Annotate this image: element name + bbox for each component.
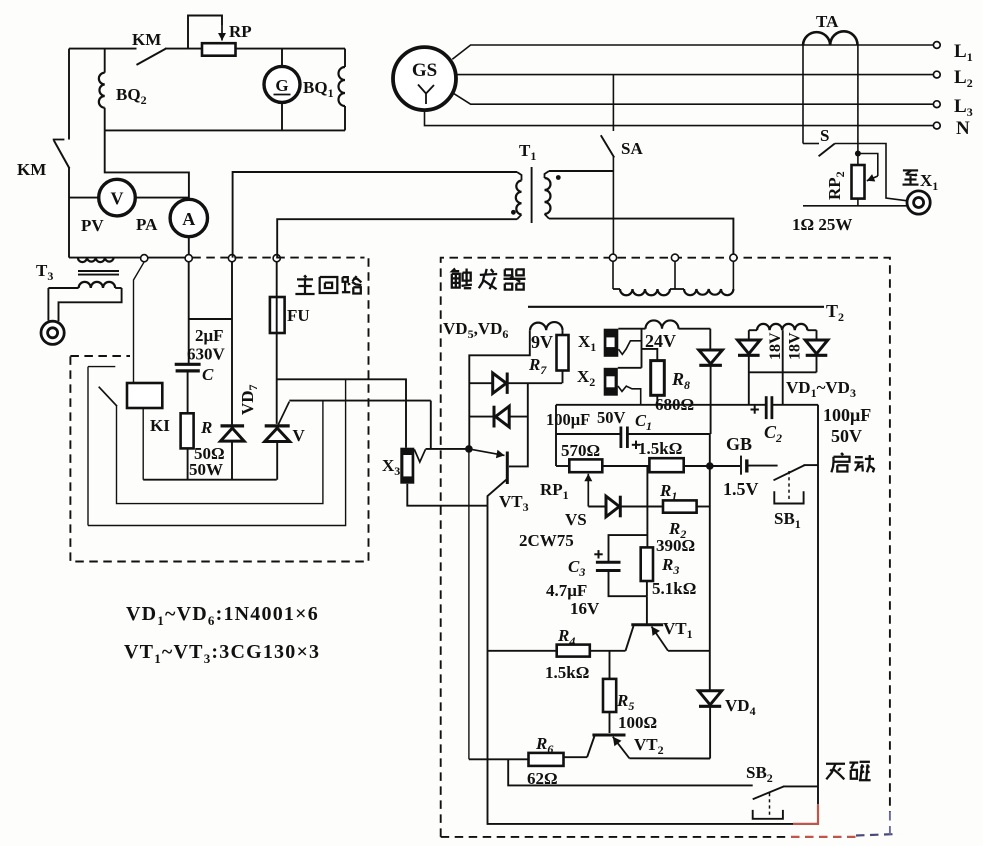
inductor BQ2 <box>104 49 106 73</box>
wire RP to BQ1 branch <box>236 48 346 50</box>
svg-text:18V: 18V <box>767 332 784 360</box>
wire VD node to VT3 base <box>509 383 528 466</box>
wire X1 group vertical <box>641 329 643 368</box>
watermark blue dashes <box>856 834 898 836</box>
pushbutton SB2 <box>753 786 784 799</box>
wire C1 right to node <box>709 434 711 466</box>
wire top excitation bus <box>69 48 137 50</box>
transistor VT2 <box>592 734 625 737</box>
transistor VT3 <box>506 452 509 485</box>
contactor KM (top contact) <box>137 48 167 65</box>
transformer T3 secondary <box>79 282 116 288</box>
wire to voltmeter <box>69 197 99 199</box>
diode VD7 <box>231 262 233 425</box>
transformer T3 primary <box>78 258 114 263</box>
node on bus (VD7 branch) <box>228 255 235 262</box>
svg-text:570Ω: 570Ω <box>561 441 600 460</box>
svg-text:100Ω: 100Ω <box>618 713 657 732</box>
diode VD3 <box>816 330 818 340</box>
resistor R3 5.1k <box>641 547 653 581</box>
svg-text:5.1kΩ: 5.1kΩ <box>652 579 696 598</box>
resistor R7 <box>557 335 569 371</box>
node R1 right <box>706 462 714 470</box>
svg-text:18V: 18V <box>787 332 804 360</box>
node T2 primary right <box>730 254 737 261</box>
connector X1 <box>604 329 619 357</box>
wire C branch from bus <box>188 262 190 363</box>
wire bridge C to VD7 branch <box>189 318 232 320</box>
wire X1 to 24V winding <box>618 328 645 330</box>
wire T1 primary bottom <box>277 219 517 257</box>
terminal L2 <box>933 71 940 78</box>
wire TA right leg <box>857 45 859 154</box>
svg-text:9V: 9V <box>531 332 553 352</box>
potentiometer RP1 570ohm <box>556 465 569 467</box>
wire X2 top <box>618 367 642 369</box>
transistor VT1 <box>646 596 648 623</box>
node junction emitter <box>465 445 473 453</box>
connector X3 <box>400 448 414 484</box>
label qi-dong (start) <box>841 453 843 455</box>
connector X2 <box>604 368 618 396</box>
generator GS <box>393 47 456 110</box>
wire gate drop to emitter node <box>430 401 432 449</box>
transformer T2 24V winding <box>646 320 679 328</box>
resistor R5 100ohm <box>609 651 611 679</box>
wire T1 secondary bottom <box>549 219 733 255</box>
wire X3 bottom to VT3 collector <box>407 484 487 506</box>
transformer T2 18V windings <box>749 329 757 331</box>
relay coil KI <box>127 383 162 408</box>
wire RP2 bottom <box>803 205 907 207</box>
relay contact KI <box>88 366 115 368</box>
thyristor V <box>265 424 290 427</box>
wire emitter node <box>426 448 469 450</box>
wire RP1 wiper to VS <box>588 506 606 508</box>
node RP2 top <box>855 151 861 157</box>
rheostat RP2 <box>857 154 859 166</box>
svg-text:50W: 50W <box>189 460 223 479</box>
svg-text:1Ω 25W: 1Ω 25W <box>792 215 852 234</box>
wire rectifier cathodes join <box>749 371 817 373</box>
svg-text:2CW75: 2CW75 <box>519 531 574 550</box>
diode VD4 <box>699 691 722 705</box>
svg-text:V: V <box>293 426 306 445</box>
wire ammeter to bus <box>188 237 190 255</box>
diode VD5 <box>469 382 492 384</box>
current transformer TA <box>803 31 858 45</box>
wire voltmeter to ammeter node <box>135 197 189 199</box>
transformer T2 primary windings <box>612 261 614 289</box>
diode VD6 <box>469 416 494 418</box>
wire KI contact to gate loop <box>117 401 323 504</box>
node T2 primary mid <box>671 254 678 261</box>
svg-text:2μF: 2μF <box>195 326 224 345</box>
svg-text:100μF: 100μF <box>546 410 590 429</box>
transformer T2 core <box>528 306 824 308</box>
transformer T1 primary <box>517 172 522 181</box>
wire KI coil to cathode rail <box>142 408 144 480</box>
wire BQ2 to ammeter <box>105 130 189 199</box>
wire VT3 collector rail <box>488 506 794 824</box>
transformer T2 9V winding <box>530 322 563 330</box>
wire anode tap loop <box>88 379 346 525</box>
svg-text:R: R <box>200 418 212 437</box>
wire bus node to relay KI coil <box>134 262 145 383</box>
svg-text:1.5kΩ: 1.5kΩ <box>638 439 682 458</box>
svg-text:FU: FU <box>287 306 310 325</box>
svg-text:C: C <box>202 365 214 384</box>
wire thyristor gate line <box>289 400 431 402</box>
label zhu-hui-lu (main circuit) <box>304 275 306 277</box>
terminal to X1 (zhi X1) <box>907 191 930 214</box>
terminal L3 <box>933 101 940 108</box>
capacitor C3 4.7uF 16V <box>609 535 648 561</box>
diode VD1 <box>709 329 711 350</box>
svg-text:SA: SA <box>621 139 643 158</box>
svg-text:VS: VS <box>565 510 587 529</box>
svg-text:GS: GS <box>412 60 437 81</box>
node on bus (KI tap) <box>141 255 148 262</box>
wire main bus (solid part) <box>69 257 189 259</box>
pushbutton SB1 <box>774 465 805 480</box>
fuse FU <box>276 262 278 297</box>
svg-text:PA: PA <box>136 215 158 234</box>
resistor R6 62ohm <box>564 756 588 758</box>
voltmeter PV <box>99 179 136 216</box>
label chu-fa-qi (trigger) <box>452 269 459 272</box>
wire line L3 <box>453 93 936 104</box>
svg-text:390Ω: 390Ω <box>656 536 695 555</box>
svg-text:100μF: 100μF <box>823 405 871 425</box>
wire 18V centre tap <box>782 330 784 405</box>
svg-text:1.5kΩ: 1.5kΩ <box>545 663 589 682</box>
node on bus (FU branch) <box>273 255 280 262</box>
watermark red corner <box>793 804 818 824</box>
wire DC rail drop left <box>555 405 557 466</box>
rheostat RP <box>202 43 236 56</box>
svg-text:TA: TA <box>816 12 839 31</box>
wire T1 primary top <box>233 172 517 258</box>
svg-text:KM: KM <box>17 160 46 179</box>
svg-text:VT1​~VT3​:3CG130×3: VT1​~VT3​:3CG130×3 <box>124 641 320 666</box>
zener VS 2CW75 <box>606 496 619 517</box>
svg-text:PV: PV <box>81 216 104 235</box>
dashed box main circuit (zhu-hui-lu) <box>70 258 368 561</box>
capacitor C1 <box>556 433 621 435</box>
wire emitter node to R6 rail <box>468 449 470 759</box>
svg-text:16V: 16V <box>570 599 600 618</box>
svg-text:1.5V: 1.5V <box>723 479 759 499</box>
diode VD2 <box>748 330 750 340</box>
resistor R1 1.5k <box>649 458 683 472</box>
resistor R 50ohm 50W <box>181 413 194 448</box>
svg-text:4.7μF: 4.7μF <box>546 581 587 600</box>
terminal socket of T3 <box>41 321 64 344</box>
label mie-ci (de-excitation) <box>826 763 845 765</box>
svg-text:VD1​~VD6​:1N4001×6: VD1​~VD6​:1N4001×6 <box>126 603 319 628</box>
svg-text:A: A <box>182 209 195 229</box>
inductor BQ1 <box>344 49 346 67</box>
svg-text:N: N <box>956 118 970 139</box>
dashed box trigger (chu-fa-qi) <box>441 258 890 837</box>
wire cathode rail of main circuit <box>143 479 277 481</box>
wire VT2 emitter <box>629 757 710 759</box>
svg-text:RP: RP <box>229 22 252 41</box>
svg-text:VD5​,VD6​: VD5​,VD6​ <box>443 319 508 341</box>
meter G (exciter) <box>281 49 283 67</box>
wire to R8 top <box>642 349 658 361</box>
svg-text:VD1​~VD3​: VD1​~VD3​ <box>786 378 856 400</box>
wire top after KM <box>165 48 202 50</box>
node T2 primary left <box>609 254 616 261</box>
svg-text:V: V <box>111 189 124 209</box>
wire S to terminal <box>835 144 908 201</box>
wire R6 to SB2 row <box>508 759 753 785</box>
wire T1 secondary top to SA <box>549 170 613 172</box>
label zhi-X1 <box>903 169 918 171</box>
terminal L1 <box>933 42 940 49</box>
svg-text:KI: KI <box>150 416 170 435</box>
svg-text:S: S <box>820 126 829 145</box>
wire right rail to SB1 <box>817 405 819 805</box>
node on bus (C branch) <box>185 255 192 262</box>
terminal N <box>933 122 940 129</box>
svg-text:GB: GB <box>726 434 752 454</box>
resistor R4 1.5k <box>488 650 557 652</box>
resistor R2 390ohm <box>663 500 697 512</box>
capacitor C 2uF 630V <box>175 363 201 366</box>
wire thyristor anode line to X3 <box>277 379 406 447</box>
transformer T3 core <box>78 270 119 272</box>
switch SA <box>612 75 614 131</box>
wire line L1 <box>452 45 936 59</box>
ammeter PA <box>170 199 207 236</box>
svg-text:KM: KM <box>132 30 161 49</box>
transformer T1 secondary <box>545 171 550 178</box>
dashed bus segment / main-circuit box top <box>192 257 364 259</box>
battery GB 1.5V <box>740 456 742 475</box>
svg-text:50V: 50V <box>597 408 626 427</box>
switch S <box>803 143 819 145</box>
wire line L2 <box>456 74 936 76</box>
wire right power rail <box>709 466 711 691</box>
wire line N <box>425 110 937 126</box>
resistor R8 <box>651 361 665 396</box>
wire KI contact riser <box>87 367 89 526</box>
wire VT1 emitter to rail <box>668 650 710 652</box>
wire bottom of excitation loop <box>105 129 345 131</box>
transformer T1 core <box>531 167 533 223</box>
wire node to VS line <box>646 466 648 547</box>
svg-text:630V: 630V <box>187 345 226 364</box>
svg-text:G: G <box>275 76 288 95</box>
wire DC rail <box>556 404 766 406</box>
capacitor C2 <box>765 396 768 419</box>
wire TA left leg <box>802 45 804 144</box>
contactor KM (left contact) <box>68 49 70 140</box>
svg-text:50V: 50V <box>831 426 862 446</box>
